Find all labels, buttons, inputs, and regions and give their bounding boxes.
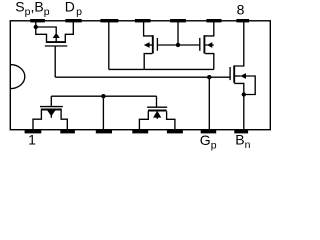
- transistor Q2m channel bar: [152, 35, 154, 53]
- pin pad 5 bottom: [167, 130, 183, 134]
- transistor Q3 gate lead: [156, 96, 158, 107]
- transistor Q2 drain lead (to pad 2): [61, 110, 67, 130]
- transistor Q2m upper lead (from top pad 11): [144, 22, 153, 36]
- wire Q1 bulk arrow to channel: [55, 38, 57, 42]
- transistor Q1 source lead (from node A): [36, 27, 47, 41]
- transistor Q1 gate bar: [45, 45, 68, 47]
- wire Gp net horizontal (Q1 gate to Q4 gate): [55, 76, 230, 78]
- transistor Q3m lower lead: [205, 54, 214, 70]
- pin pad 2 bottom: [60, 130, 75, 134]
- transistor Q3 gate bar: [147, 106, 167, 108]
- transistor Q1 channel bar: [46, 41, 66, 43]
- transistor Q3 drain lead (to pad 5): [167, 111, 175, 130]
- wire common gate (Q2m gate to Q3m gate): [157, 44, 200, 46]
- wire pad Sp,Bp to node A: [35, 22, 37, 27]
- pin pad 6 bottom (Gp): [201, 130, 217, 134]
- svg-text:Dp: Dp: [65, 0, 82, 18]
- node D junction dot (Q4 source-bulk tie): [242, 92, 246, 96]
- wire Q3m bulk arrow to drain lead: [212, 44, 214, 46]
- transistor Q4 channel bar: [233, 65, 235, 82]
- transistor Q4 bulk arrow (N-channel, points left to channel): [240, 73, 246, 79]
- pin pad 13 top (Dp): [65, 19, 81, 22]
- pin pad 7 bottom (Bn): [234, 130, 248, 134]
- wire Q3 bulk arrow stub: [156, 117, 158, 119]
- wire Q4 channel to bulk arrow: [235, 75, 241, 77]
- transistor Q2m gate bar: [156, 38, 158, 51]
- wire mid rail (Q2m/Q3m lower leads): [109, 68, 214, 70]
- pin pad 3 bottom: [96, 130, 112, 134]
- node A junction dot: [34, 25, 38, 29]
- transistor Q2 gate lead: [50, 96, 52, 106]
- wire pgate net (Q2 gate to Q3 gate): [51, 95, 156, 97]
- pin pad 1 bottom: [25, 130, 42, 134]
- transistor Q3 channel bar: [148, 110, 167, 112]
- wire node C down to pad 3: [102, 96, 104, 130]
- svg-text:Gp: Gp: [200, 132, 217, 152]
- pin pad 11 top: [135, 19, 151, 22]
- transistor Q2 source lead (to pad 1): [33, 110, 41, 130]
- wire Q3m channel to bulk arrow: [205, 44, 207, 46]
- node Gp junction dot: [207, 75, 211, 79]
- transistor Q4 source lead (to pad Bn): [234, 83, 244, 130]
- transistor Q1 bulk arrow (P-channel, points up): [53, 33, 60, 38]
- svg-text:Sp,Bp: Sp,Bp: [15, 0, 49, 18]
- pin pad 12 top: [100, 19, 118, 22]
- transistor Q2 bulk arrow (P-channel, points down): [47, 110, 55, 116]
- wire Gp node down to pad Gp: [208, 77, 210, 130]
- pin pad 9 top: [206, 19, 221, 22]
- wire Q4 bulk tie to source: [244, 76, 255, 95]
- transistor Q3 bulk arrow (N-channel, points up to channel): [153, 111, 161, 118]
- transistor Q4 gate bar: [229, 67, 231, 80]
- pin pad 14 top (Sp,Bp): [30, 19, 45, 22]
- wire Q1 gate down to Gp net: [54, 46, 56, 77]
- wire Q2 bulk arrow stub: [50, 115, 52, 117]
- transistor Q2m bulk arrow (points left to source lead): [144, 42, 150, 48]
- transistor Q2 gate bar: [40, 106, 63, 108]
- node B junction dot: [176, 43, 180, 47]
- transistor Q3m bulk arrow (points left to channel): [207, 42, 212, 48]
- wire pad 12 down to mid rail: [108, 22, 110, 69]
- pin pad 8 top: [236, 19, 249, 22]
- node C junction dot: [101, 94, 105, 98]
- transistor Q2m lower lead: [144, 54, 152, 70]
- package outline: [10, 21, 270, 130]
- wire node A to Q1 bulk arrow: [36, 27, 56, 33]
- wire Q2m bulk arrow to channel: [149, 44, 152, 46]
- pin pad 10 top: [170, 19, 186, 22]
- transistor Q4 drain lead (to top pad 8): [234, 22, 244, 66]
- svg-text:Bn: Bn: [235, 132, 250, 152]
- transistor Q2 channel bar: [41, 109, 62, 111]
- pin pad 4 bottom: [132, 130, 148, 134]
- transistor Q3m gate bar: [199, 38, 201, 51]
- transistor Q3m upper lead (to top pad 9): [205, 22, 214, 36]
- transistor Q3m channel bar: [203, 35, 205, 53]
- transistor Q3 source lead (to pad 4): [139, 111, 148, 130]
- pin-1 indicator notch: [10, 65, 24, 89]
- svg-text:8: 8: [237, 1, 245, 17]
- wire pad 10 down to node B: [177, 22, 179, 45]
- svg-text:1: 1: [28, 132, 36, 148]
- transistor Q1 drain lead (from Dp pad): [65, 22, 73, 41]
